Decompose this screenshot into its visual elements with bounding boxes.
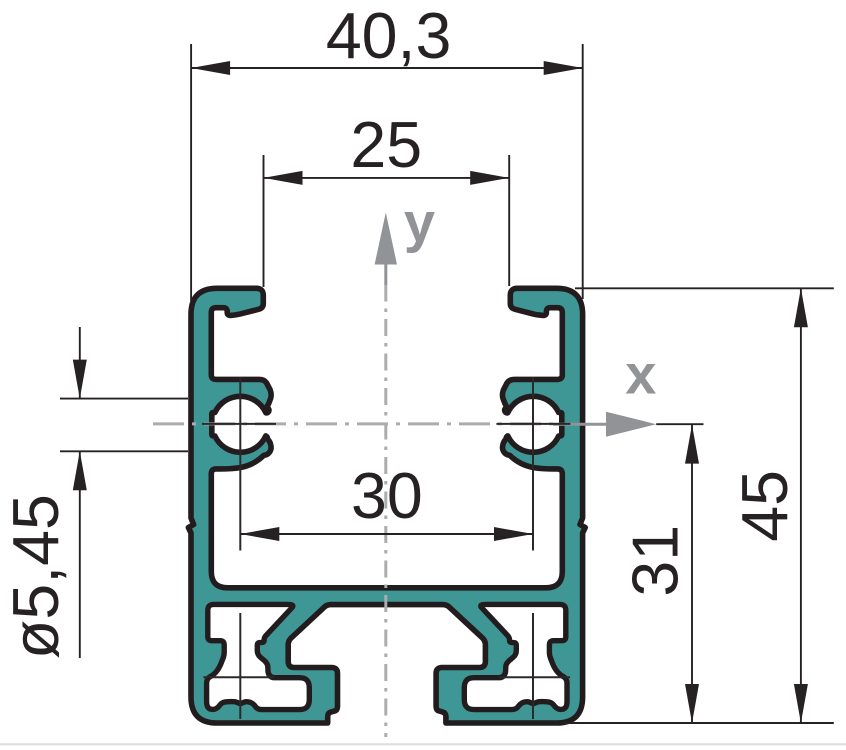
svg-text:40,3: 40,3 xyxy=(326,0,452,72)
dimension 30 line xyxy=(240,533,533,535)
crosshair right bottom channel xyxy=(532,613,534,719)
svg-text:ø5,45: ø5,45 xyxy=(0,494,72,659)
crosshair left bottom channel xyxy=(239,613,241,719)
dimension 45 arrows xyxy=(794,288,808,327)
svg-text:x: x xyxy=(625,343,656,406)
dimension 31 extension line top xyxy=(656,423,703,425)
horizontal center line (x axis dash-dot) xyxy=(153,422,556,425)
y axis grey arrowhead xyxy=(375,213,397,265)
dimension 40,3 extension lines xyxy=(191,44,583,301)
page rule at bottom xyxy=(0,743,846,745)
dimension 40,3 arrows xyxy=(191,61,230,75)
left screw channel xyxy=(207,604,310,709)
vertical center line (y axis dash-dot) xyxy=(384,285,387,738)
dimension 25 line xyxy=(264,177,510,179)
dimension diameter 5,45 arrows xyxy=(73,360,87,399)
dimension 31 line xyxy=(691,425,693,723)
svg-text:30: 30 xyxy=(351,460,423,532)
dimension diameter 5,45 extension lines xyxy=(60,399,188,452)
profile cross-section body xyxy=(188,288,585,723)
svg-text:45: 45 xyxy=(729,470,801,542)
svg-text:31: 31 xyxy=(620,525,692,597)
dimension 25 arrows xyxy=(264,171,303,185)
svg-text:y: y xyxy=(404,191,435,254)
x axis grey arrowhead xyxy=(606,412,656,437)
y axis grey stem xyxy=(384,263,387,285)
dimension 40,3 line xyxy=(191,67,583,69)
svg-text:25: 25 xyxy=(350,109,422,181)
dimension 45 extension lines xyxy=(563,288,834,723)
crosshair through right hole xyxy=(532,377,534,551)
dimension diameter 5,45 leader lines xyxy=(79,327,81,658)
dimension 25 extension lines xyxy=(264,155,510,287)
dimension 31 arrows xyxy=(685,425,699,464)
right screw channel xyxy=(464,604,567,709)
crosshair through left hole xyxy=(239,377,241,551)
x axis solid grey tail xyxy=(553,423,607,426)
dimension 45 line xyxy=(800,288,802,723)
dimension 30 arrows xyxy=(240,527,279,541)
